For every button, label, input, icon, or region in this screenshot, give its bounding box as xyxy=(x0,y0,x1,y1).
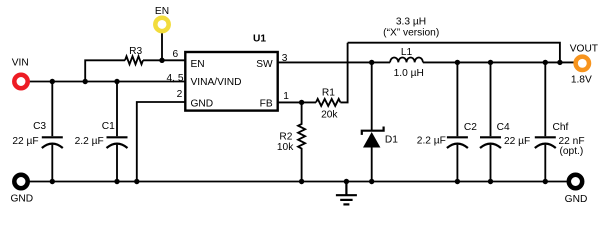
svg-text:1.8V: 1.8V xyxy=(571,75,592,86)
svg-text:3.3 µH: 3.3 µH xyxy=(396,17,426,28)
wire C3 branch lower xyxy=(51,145,53,182)
node GND-Chf xyxy=(543,179,548,184)
wire Chf branch lower xyxy=(544,145,546,182)
node GND-C2 xyxy=(455,179,460,184)
wire Chf branch upper xyxy=(544,62,546,136)
svg-text:D1: D1 xyxy=(385,134,398,145)
node VOUT-C4 xyxy=(488,60,493,65)
resistor R2 xyxy=(298,102,305,181)
wire C1 branch lower xyxy=(116,145,118,182)
ground xyxy=(336,182,357,205)
wire R1 to bypass rail xyxy=(340,43,347,103)
svg-text:SW: SW xyxy=(256,59,273,70)
diode D1 xyxy=(362,127,384,148)
wire D1 branch upper xyxy=(371,62,373,130)
svg-text:22 µF: 22 µF xyxy=(504,136,530,147)
wire C2 branch lower xyxy=(456,145,458,182)
svg-text:EN: EN xyxy=(155,6,169,17)
wire bottom ground rail xyxy=(30,181,568,183)
wire C4 branch upper xyxy=(490,62,492,136)
node VOUT-bypass xyxy=(557,60,562,65)
capacitor C1 xyxy=(107,137,128,148)
svg-text:C1: C1 xyxy=(102,121,115,132)
svg-text:U1: U1 xyxy=(253,33,266,44)
wire R3 to EN pin xyxy=(143,59,185,61)
node VIN-R3 xyxy=(83,79,88,84)
capacitor C4 xyxy=(480,137,501,148)
svg-text:R1: R1 xyxy=(322,87,335,98)
svg-text:VOUT: VOUT xyxy=(570,44,598,55)
svg-text:C4: C4 xyxy=(497,122,510,133)
svg-text:20k: 20k xyxy=(321,110,338,121)
node GND-pin2 xyxy=(134,179,139,184)
wire EN terminal stem xyxy=(161,33,163,61)
node VIN-C3 xyxy=(50,79,55,84)
svg-text:VINA/VIND: VINA/VIND xyxy=(191,77,242,88)
node GND-C3 xyxy=(50,179,55,184)
svg-text:3: 3 xyxy=(282,53,288,64)
svg-text:GND: GND xyxy=(565,194,588,205)
svg-text:FB: FB xyxy=(260,98,273,109)
svg-text:EN: EN xyxy=(191,59,205,70)
capacitor C3 xyxy=(42,137,63,148)
wire SW rail right of L1 xyxy=(423,61,574,63)
resistor R1 xyxy=(316,99,340,106)
node EN xyxy=(159,58,164,63)
node VOUT-Chf xyxy=(543,60,548,65)
svg-text:(“X” version): (“X” version) xyxy=(383,28,439,39)
svg-text:L1: L1 xyxy=(401,47,413,58)
svg-text:C2: C2 xyxy=(464,122,477,133)
node FB-R2 xyxy=(299,100,304,105)
svg-text:VIN: VIN xyxy=(12,58,29,69)
capacitor Chf xyxy=(535,137,556,148)
terminal VIN xyxy=(14,75,27,88)
terminal VOUT xyxy=(576,57,589,70)
wire VIN rail xyxy=(30,81,186,83)
svg-text:22 µF: 22 µF xyxy=(12,136,38,147)
inductor L1 xyxy=(390,57,423,62)
svg-text:1: 1 xyxy=(283,91,289,102)
node VIN-C1 xyxy=(114,79,119,84)
op-amp U1 (IC box) xyxy=(185,52,277,111)
wire SW rail left of L1 xyxy=(278,61,390,63)
wire C4 branch lower xyxy=(490,145,492,182)
wire GND pin 2 xyxy=(137,102,186,182)
svg-text:C3: C3 xyxy=(33,121,46,132)
node junction dots xyxy=(50,58,563,185)
svg-text:10k: 10k xyxy=(277,142,294,153)
node GND-earth xyxy=(344,179,349,184)
wire D1 branch lower xyxy=(371,148,373,182)
capacitor C2 xyxy=(447,137,468,148)
wire FB to R1 xyxy=(278,101,316,103)
svg-text:2.2 µF: 2.2 µF xyxy=(417,136,446,147)
wire C2 branch upper xyxy=(456,62,458,136)
svg-text:(opt.): (opt.) xyxy=(560,146,584,157)
svg-text:GND: GND xyxy=(191,98,214,109)
node GND-C1 xyxy=(114,179,119,184)
terminal EN xyxy=(155,18,168,31)
svg-text:Chf: Chf xyxy=(552,122,568,133)
svg-text:1.0 µH: 1.0 µH xyxy=(394,68,424,79)
wire bypass top rail 3.3uH xyxy=(348,43,560,63)
terminal GND left xyxy=(14,175,27,188)
node GND-R2 xyxy=(299,179,304,184)
svg-text:GND: GND xyxy=(10,193,33,204)
terminal GND right xyxy=(569,175,582,188)
svg-text:4, 5: 4, 5 xyxy=(167,73,184,84)
node SW-D1 xyxy=(369,60,374,65)
node VOUT-C2 xyxy=(455,60,460,65)
svg-text:2: 2 xyxy=(177,89,183,100)
svg-text:2.2 µF: 2.2 µF xyxy=(75,136,104,147)
node GND-C4 xyxy=(488,179,493,184)
wire EN/R3 line left stub xyxy=(85,60,125,81)
node GND-D1 xyxy=(369,179,374,184)
svg-text:R3: R3 xyxy=(129,46,142,57)
wire C3 branch upper xyxy=(51,82,53,137)
resistor R3 xyxy=(125,56,143,64)
wire C1 branch upper xyxy=(116,82,118,137)
svg-text:6: 6 xyxy=(173,49,179,60)
svg-text:R2: R2 xyxy=(279,132,292,143)
